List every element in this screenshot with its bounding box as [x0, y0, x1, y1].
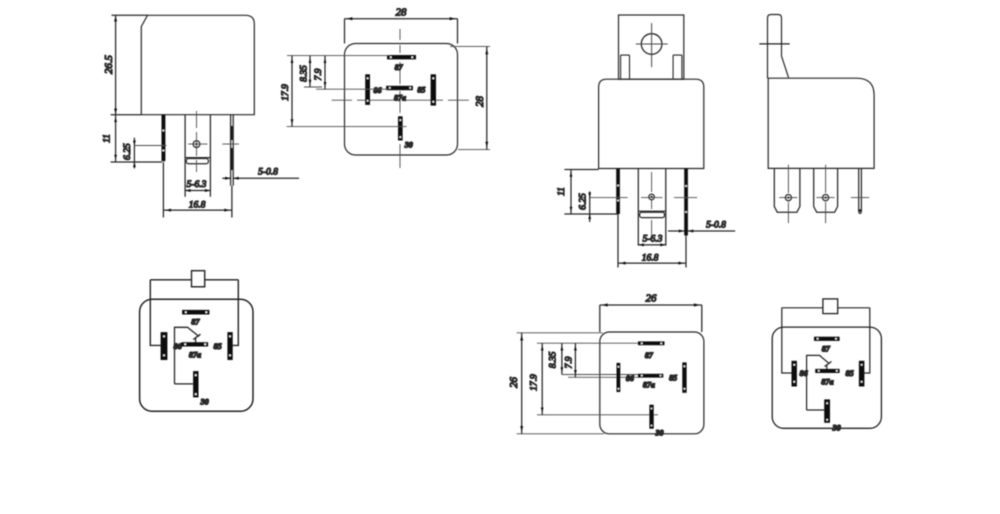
- pin 30 centerlines: [196, 111, 198, 172]
- svg-text:87: 87: [645, 351, 654, 360]
- switch arm 30-87a: [175, 327, 200, 384]
- svg-text:30: 30: [200, 398, 209, 407]
- svg-text:85: 85: [214, 342, 222, 351]
- pin 3 thin blade: [859, 168, 862, 213]
- coil K1: [823, 299, 838, 314]
- svg-text:5-6.3: 5-6.3: [187, 180, 207, 190]
- svg-text:86: 86: [626, 374, 634, 383]
- svg-text:11: 11: [557, 187, 567, 196]
- dimension 17.9: [291, 56, 293, 127]
- pin 2 wide blade: [814, 168, 838, 212]
- dimension 26 left: [521, 333, 523, 434]
- svg-text:26: 26: [508, 377, 520, 388]
- svg-text:87: 87: [822, 345, 831, 354]
- svg-text:86: 86: [800, 369, 809, 378]
- svg-text:87a: 87a: [394, 93, 406, 102]
- svg-text:17.9: 17.9: [281, 84, 291, 101]
- svg-text:28: 28: [396, 7, 407, 19]
- relay base outline (bottom view): [600, 332, 704, 434]
- svg-text:85: 85: [669, 374, 677, 383]
- pin 85 (right blade, edge view): [231, 115, 234, 186]
- svg-text:6.25: 6.25: [123, 143, 133, 160]
- svg-text:86: 86: [174, 342, 183, 351]
- pin 30: [398, 116, 403, 140]
- pin 3 centerline: [851, 197, 869, 199]
- dimension 16.8: [618, 214, 686, 268]
- centerline vertical: [399, 29, 401, 168]
- mounting bracket: [619, 15, 684, 79]
- svg-text:17.9: 17.9: [530, 374, 540, 391]
- extension line box bottom: [517, 433, 604, 435]
- centerline horizontal: [332, 99, 469, 101]
- pin 87a: [386, 86, 413, 90]
- pin 30 centerlines: [651, 172, 653, 240]
- dimension 28 right: [450, 46, 490, 149]
- relay body (side view): [768, 78, 875, 168]
- dimension 26 top: [600, 305, 702, 332]
- wire 30 to switch: [175, 383, 194, 385]
- svg-text:87a: 87a: [189, 351, 201, 360]
- pin 87: [638, 341, 665, 345]
- pin 2 centerlines: [825, 165, 827, 223]
- pin 30 hole: [193, 141, 200, 148]
- pin 30 (center blade, face view): [185, 115, 210, 197]
- svg-text:8.35: 8.35: [548, 351, 558, 368]
- wire coil left: [782, 307, 823, 309]
- wire coil right: [205, 279, 239, 281]
- wire 30 to switch: [807, 409, 825, 411]
- pin 87: [814, 337, 840, 341]
- extension line 30 row: [537, 414, 658, 416]
- pin 1 wide blade: [774, 168, 800, 212]
- pin 87a: [815, 369, 839, 373]
- wire coil left: [150, 279, 191, 281]
- pin 1 hole: [785, 195, 791, 201]
- pin 87a: [638, 374, 663, 378]
- centerline hole row: [590, 197, 698, 199]
- svg-text:5-0.8: 5-0.8: [706, 221, 726, 231]
- pin 30 (center blade, face view): [638, 169, 666, 246]
- pin 86: [617, 363, 621, 392]
- coil K1: [192, 271, 205, 287]
- extension line body bottom: [564, 169, 598, 171]
- relay outline: [140, 299, 253, 411]
- dimension 17.9: [541, 343, 543, 415]
- pin 86: [161, 332, 168, 360]
- tab hole centerline: [759, 43, 789, 45]
- pin 85 centerline: [222, 143, 239, 145]
- dimension 16.8: [163, 162, 232, 218]
- svg-text:7.9: 7.9: [564, 356, 574, 368]
- extension line bottom: [111, 114, 142, 116]
- pin 85 (right blade): [684, 169, 688, 236]
- svg-text:5-0.8: 5-0.8: [258, 168, 278, 178]
- svg-text:26.5: 26.5: [103, 54, 115, 73]
- switch arm 30-87a: [807, 355, 830, 410]
- relay outline: [772, 327, 881, 428]
- extension line pin bottom row: [564, 213, 617, 215]
- pin 86: [792, 361, 797, 387]
- pin 2 hole: [823, 195, 829, 201]
- svg-text:6.25: 6.25: [578, 193, 588, 210]
- svg-text:85: 85: [417, 85, 425, 94]
- svg-text:87: 87: [191, 318, 200, 327]
- relay base outline (bottom view): [345, 44, 458, 156]
- wire left down to 86: [150, 280, 160, 346]
- pin 85: [431, 74, 436, 105]
- pin 30: [649, 405, 653, 429]
- pin 86 (left blade): [616, 169, 620, 215]
- svg-text:86: 86: [374, 86, 382, 95]
- extension line top: [112, 14, 149, 16]
- extension lines middle rows: [562, 375, 639, 378]
- pin 86: [365, 74, 370, 105]
- svg-text:87a: 87a: [643, 380, 655, 389]
- dimension 26.5: [115, 15, 117, 114]
- wire right down to 85: [864, 308, 869, 373]
- svg-text:30: 30: [404, 141, 413, 150]
- dimension 7.9: [324, 56, 326, 90]
- pin 30 hole: [649, 194, 655, 200]
- dimension 8.35: [309, 56, 311, 87]
- bracket hole: [641, 34, 662, 55]
- svg-text:87: 87: [395, 63, 404, 72]
- pin 87a: [181, 342, 208, 346]
- pin 85: [227, 332, 232, 360]
- svg-text:28: 28: [474, 96, 486, 107]
- wire coil right: [838, 307, 870, 309]
- pin 85: [859, 361, 865, 387]
- dimension 8.35: [561, 343, 563, 374]
- pin 1 centerlines: [787, 165, 789, 223]
- wire left down to 86: [782, 308, 792, 373]
- wire right down to 85: [233, 280, 239, 346]
- extension line box top: [517, 332, 603, 334]
- pin 86 (left blade, edge view): [162, 115, 166, 162]
- svg-text:87a: 87a: [821, 377, 833, 386]
- svg-text:26: 26: [646, 293, 657, 305]
- svg-text:16.8: 16.8: [189, 201, 206, 211]
- dimension 11: [570, 170, 572, 215]
- dimension 6.25: [589, 191, 591, 222]
- extension line 87 row: [287, 55, 390, 57]
- extension line hole row: [134, 145, 166, 147]
- svg-text:30: 30: [655, 429, 664, 438]
- svg-text:5-6.3: 5-6.3: [643, 235, 663, 245]
- extension line 30 row: [287, 126, 407, 128]
- pin 87: [182, 310, 209, 315]
- dimension 11: [115, 115, 117, 162]
- relay body (front view with bracket): [599, 79, 704, 168]
- pin 30: [193, 371, 198, 397]
- svg-text:85: 85: [846, 369, 854, 378]
- extension line middle row: [304, 87, 388, 89]
- svg-text:30: 30: [832, 424, 841, 433]
- dimension 6.25: [133, 138, 135, 169]
- dimension 7.9: [574, 343, 576, 377]
- svg-text:11: 11: [103, 134, 113, 143]
- extension line pin-bottom row: [111, 161, 162, 163]
- svg-text:8.35: 8.35: [300, 65, 310, 82]
- dimension 28 top: [345, 19, 458, 44]
- svg-text:7.9: 7.9: [314, 68, 324, 80]
- relay body (front view): [141, 15, 254, 114]
- pin 30: [824, 399, 830, 422]
- pin 85: [682, 362, 686, 392]
- extension line 87 row: [537, 342, 639, 344]
- bracket tab (side view): [768, 15, 789, 79]
- pin 87: [387, 55, 416, 59]
- svg-text:16.8: 16.8: [642, 254, 659, 264]
